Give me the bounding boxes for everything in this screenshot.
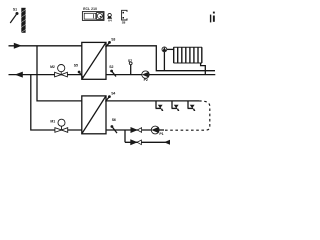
svg-text:S2: S2 [109, 65, 113, 69]
svg-text:P2: P2 [144, 78, 148, 82]
svg-text:S7: S7 [128, 59, 132, 63]
svg-text:P1: P1 [159, 132, 163, 136]
svg-text:A4: A4 [108, 18, 112, 22]
svg-text:S8: S8 [122, 21, 126, 25]
svg-text:S4: S4 [111, 92, 115, 96]
svg-text:S5: S5 [74, 63, 78, 67]
svg-text:S3: S3 [111, 38, 115, 42]
svg-text:M1: M1 [50, 119, 55, 123]
svg-text:M2: M2 [50, 65, 55, 69]
svg-text:S1: S1 [13, 8, 17, 12]
svg-text:S6: S6 [112, 118, 116, 122]
svg-text:ECL 210: ECL 210 [83, 7, 97, 11]
